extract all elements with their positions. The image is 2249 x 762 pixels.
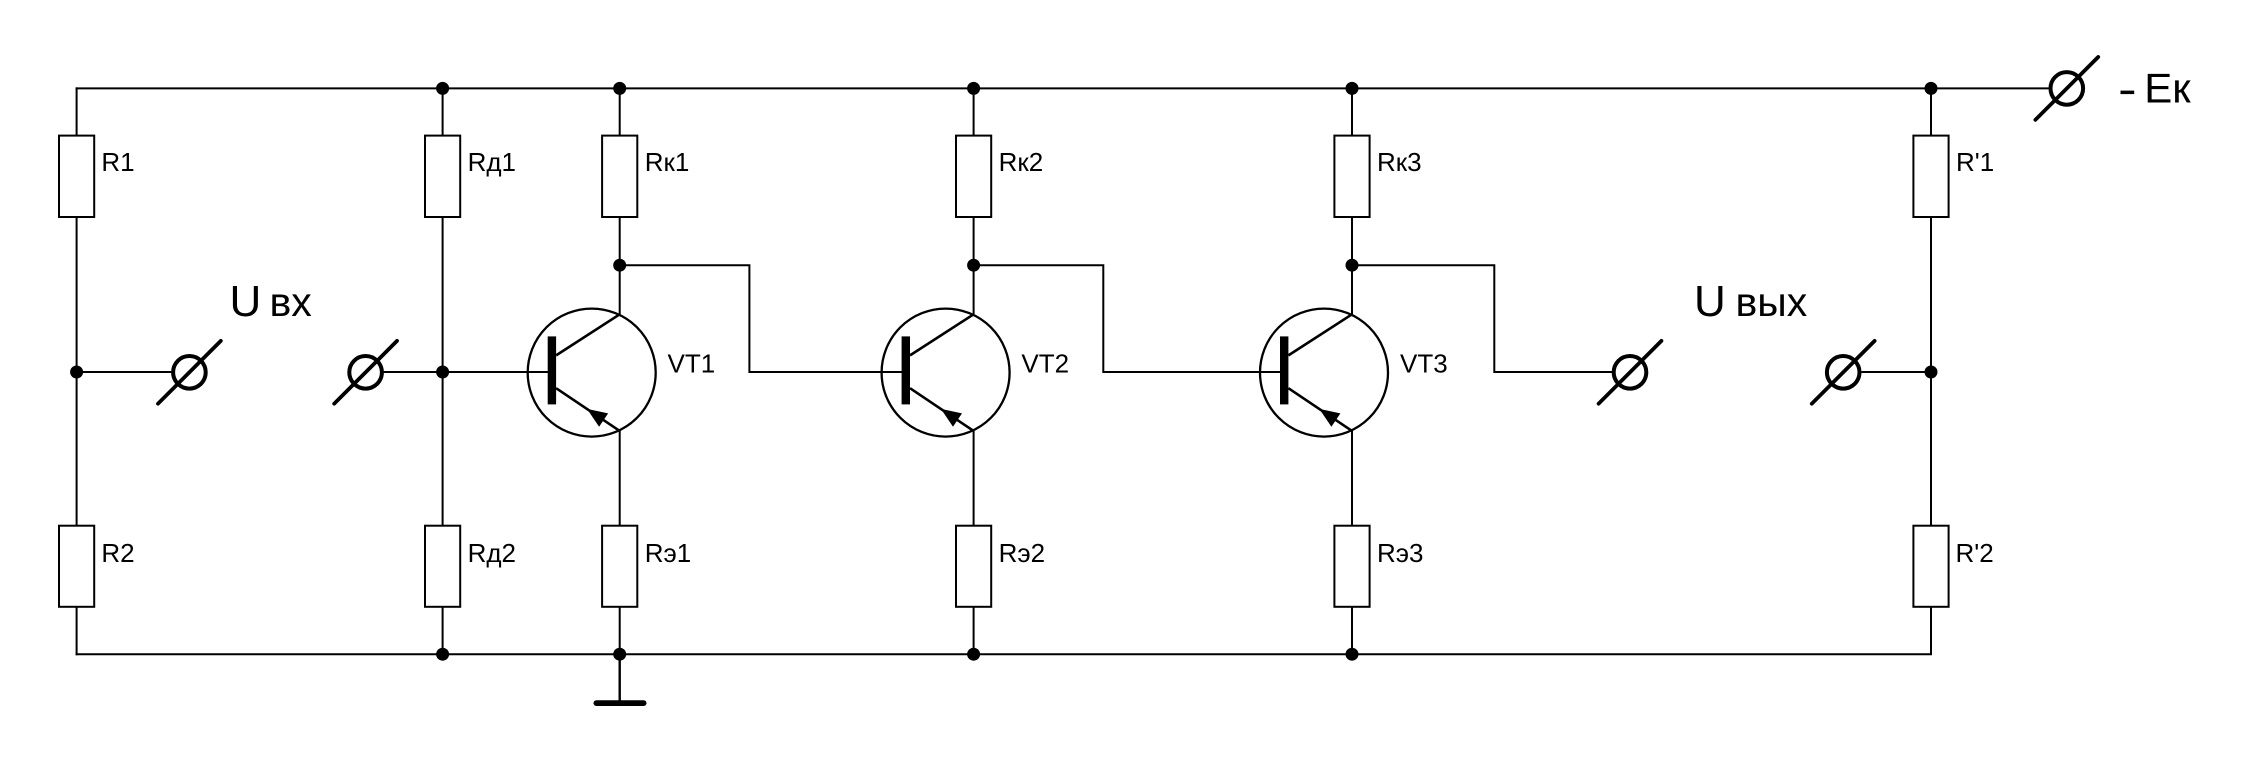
terminal output 2: [1812, 341, 1875, 404]
junction input node R1-R2: [70, 366, 83, 379]
junction divider node Rd1-Rd2: [436, 366, 449, 379]
resistor Rk1: [602, 136, 637, 217]
junction bottom rail / Rd2: [436, 648, 449, 661]
junction bottom rail / Re1 ground: [613, 648, 626, 661]
svg-text:R'2: R'2: [1956, 538, 1994, 568]
svg-text:U: U: [230, 277, 262, 326]
junction VT3 collector node: [1346, 259, 1359, 272]
svg-text:Rэ3: Rэ3: [1377, 538, 1424, 568]
svg-text:Rд1: Rд1: [468, 147, 516, 177]
resistor Rk3: [1334, 136, 1369, 217]
transistor VT1 internals: base bar, collector, emitter, arrow: [548, 314, 620, 431]
junction bottom rail / Re3: [1346, 648, 1359, 661]
svg-text:Rэ1: Rэ1: [645, 538, 692, 568]
wire top rail -Ek: [76, 87, 2049, 89]
junction VT2 collector node: [967, 259, 980, 272]
svg-text:R2: R2: [101, 538, 134, 568]
resistor Rd2: [425, 526, 460, 607]
transistor VT3 internals: base bar, collector, emitter, arrow: [1280, 314, 1352, 431]
wire column R'1-R'2: [1930, 88, 1932, 654]
terminal input 2: [334, 341, 397, 404]
terminal output 1: [1599, 341, 1662, 404]
junction top rail / Rk1: [613, 82, 626, 95]
svg-text:VT3: VT3: [1400, 349, 1448, 379]
wire input node to terminal 1: [77, 371, 172, 373]
wire Rk2 to VT2 collector: [973, 88, 975, 314]
resistor Re3: [1334, 526, 1369, 607]
svg-text:VT1: VT1: [668, 349, 716, 379]
svg-text:Ек: Ек: [2144, 65, 2191, 112]
transistor VT3: [1260, 309, 1388, 437]
transistor VT2 internals: base bar, collector, emitter, arrow: [902, 314, 974, 431]
wire divider node to VT1 base: [443, 371, 556, 373]
terminal -Ek supply: [2035, 57, 2098, 120]
svg-text:Rд2: Rд2: [468, 538, 516, 568]
wire VT2 emitter to Re2: [973, 431, 975, 654]
wire terminal 2 to divider node: [384, 371, 443, 373]
ground: [594, 654, 647, 706]
wire column Rd1-Rd2: [442, 88, 444, 654]
resistor Re2: [956, 526, 991, 607]
wire VT1 emitter to Re1: [619, 431, 621, 654]
junction top rail / Rd1: [436, 82, 449, 95]
svg-text:VT2: VT2: [1021, 349, 1069, 379]
transistor VT1: [528, 309, 656, 437]
wire output terminal 4 to R' node: [1862, 371, 1932, 373]
resistor R'2: [1913, 526, 1948, 607]
svg-text:вых: вых: [1736, 279, 1808, 325]
terminal input 1: [158, 341, 221, 404]
resistor R2: [59, 526, 94, 607]
junction top rail / Rk3: [1346, 82, 1359, 95]
junction bottom rail / Re2: [967, 648, 980, 661]
wire VT3 emitter to Re3: [1351, 431, 1353, 654]
svg-text:U: U: [1694, 277, 1726, 326]
svg-text:Rк2: Rк2: [999, 147, 1044, 177]
resistor R1: [59, 136, 94, 217]
wire column R1-R2: [76, 87, 78, 655]
wire bottom rail: [76, 653, 1932, 655]
svg-text:вх: вх: [270, 279, 313, 325]
resistor R'1: [1913, 136, 1948, 217]
svg-text:R1: R1: [101, 147, 134, 177]
junction output node R'1-R'2: [1925, 366, 1938, 379]
svg-text:R'1: R'1: [1956, 147, 1994, 177]
svg-text:Rк3: Rк3: [1377, 147, 1422, 177]
wire VT3 collector to output terminal: [1352, 265, 1612, 372]
transistor VT2: [882, 309, 1010, 437]
junction top rail / R'1: [1925, 82, 1938, 95]
wire Rk1 to VT1 collector: [619, 88, 621, 314]
svg-text:Rк1: Rк1: [645, 147, 690, 177]
resistor Re1: [602, 526, 637, 607]
resistor Rk2: [956, 136, 991, 217]
wire VT1 collector to VT2 base: [620, 265, 902, 372]
wire Rk3 to VT3 collector: [1351, 88, 1353, 314]
resistor Rd1: [425, 136, 460, 217]
junction top rail / Rk2: [967, 82, 980, 95]
label -Ek: [2121, 91, 2135, 95]
svg-text:Rэ2: Rэ2: [999, 538, 1046, 568]
wire VT2 collector to VT3 base: [974, 265, 1281, 372]
junction VT1 collector node: [613, 259, 626, 272]
